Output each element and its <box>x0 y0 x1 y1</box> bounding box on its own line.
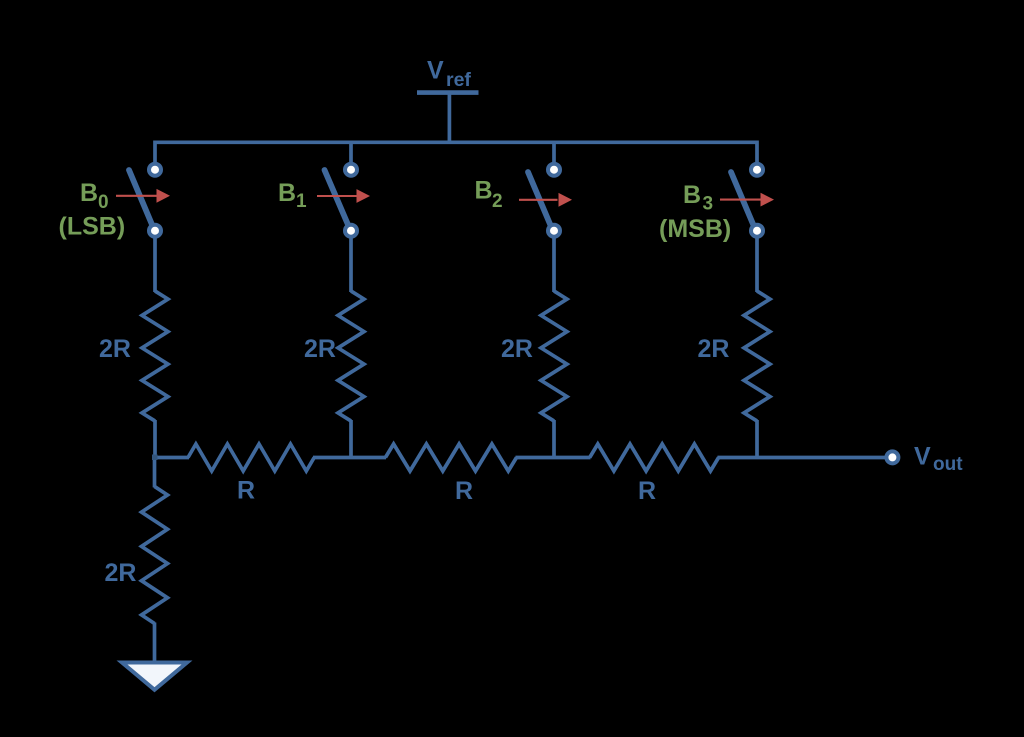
svg-text:R: R <box>638 477 656 505</box>
switch S3 bottom contact <box>751 225 763 237</box>
resistor R2 <box>385 444 516 471</box>
resistor R1 <box>188 444 314 471</box>
switch S3 lever <box>731 172 757 234</box>
svg-text:V: V <box>914 443 931 471</box>
wire: node row segment C <box>516 456 591 460</box>
svg-text:2: 2 <box>492 191 503 212</box>
resistor 2R column 2 <box>541 291 567 421</box>
wire: top bus <box>155 142 757 162</box>
resistor 2R column 1 <box>338 291 364 421</box>
switch S1 lever <box>325 170 351 231</box>
label B0 <box>80 179 109 213</box>
svg-text:0: 0 <box>98 192 109 213</box>
arrow B0 control <box>116 189 170 203</box>
svg-text:R: R <box>237 477 255 505</box>
wire: 2R col1 to node row <box>349 420 353 459</box>
Vref supply bar <box>417 90 479 95</box>
wire: 2R col0 to node row <box>153 420 157 459</box>
wire: node row segment A <box>155 456 189 460</box>
wire: bus stub to S2 <box>552 142 556 163</box>
Vout terminal <box>886 451 898 463</box>
wire: node row to lower 2R <box>153 456 157 487</box>
switch S1 top contact <box>345 164 357 176</box>
svg-text:3: 3 <box>703 194 714 215</box>
switch S2 top contact <box>548 164 560 176</box>
wire: 2R to ground <box>153 623 157 662</box>
resistor 2R column 3 <box>744 291 770 421</box>
label B3 <box>683 181 713 215</box>
svg-text:B: B <box>683 181 701 209</box>
wire: node row segment D to output <box>718 456 886 460</box>
ground <box>122 663 187 690</box>
svg-text:R: R <box>455 477 473 505</box>
node junction marker <box>152 455 158 461</box>
switch S0 lever <box>129 170 155 231</box>
svg-text:(LSB): (LSB) <box>59 213 126 241</box>
wire: S0 to 2R <box>153 236 157 292</box>
arrow B3 control <box>720 193 774 207</box>
label B1 <box>278 179 307 212</box>
label Vref <box>427 57 471 92</box>
svg-text:B: B <box>278 179 296 207</box>
svg-text:2R: 2R <box>304 335 336 363</box>
switch S0 top contact <box>149 164 161 176</box>
switch S1 bottom contact <box>345 225 357 237</box>
svg-text:2R: 2R <box>698 335 730 363</box>
arrow B1 control <box>317 189 370 203</box>
resistor 2R column 0 <box>142 291 168 421</box>
svg-text:2R: 2R <box>501 335 533 363</box>
svg-text:V: V <box>427 57 444 85</box>
wire: Vref stem <box>448 94 452 144</box>
wire: S2 to 2R <box>552 236 556 292</box>
switch S2 lever <box>528 172 554 234</box>
svg-text:B: B <box>475 177 493 205</box>
svg-text:2R: 2R <box>105 559 137 587</box>
svg-text:out: out <box>933 454 963 475</box>
wire: 2R col3 to node row <box>755 420 759 459</box>
svg-text:1: 1 <box>296 191 307 212</box>
wire: S1 to 2R <box>349 236 353 292</box>
switch S0 bottom contact <box>149 225 161 237</box>
wire: 2R col2 to node row <box>552 420 556 459</box>
wire: bus stub to S1 <box>349 142 353 163</box>
wire: S3 to 2R <box>755 236 759 292</box>
label B2 <box>475 177 503 213</box>
svg-text:ref: ref <box>446 69 471 91</box>
resistor R3 <box>590 444 719 471</box>
wire: node row segment B <box>313 456 386 460</box>
label Vout <box>914 443 963 475</box>
svg-text:2R: 2R <box>99 335 131 363</box>
resistor 2R termination <box>142 486 168 623</box>
svg-text:(MSB): (MSB) <box>659 215 731 243</box>
switch S3 top contact <box>751 164 763 176</box>
switch S2 bottom contact <box>548 225 560 237</box>
arrow B2 control <box>519 193 572 207</box>
svg-text:B: B <box>80 179 98 207</box>
